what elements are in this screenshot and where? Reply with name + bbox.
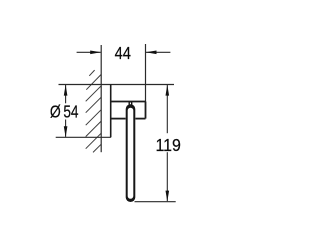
svg-text:54: 54	[63, 103, 78, 122]
svg-text:Ø: Ø	[50, 103, 61, 122]
svg-text:44: 44	[115, 44, 131, 63]
svg-text:119: 119	[156, 135, 181, 155]
